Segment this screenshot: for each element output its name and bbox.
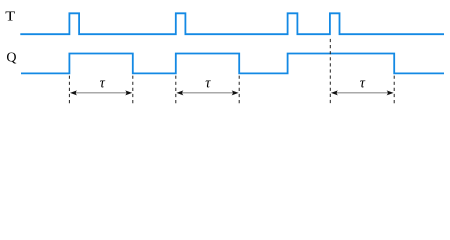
node dashed marker at Q1 rising edge <box>68 76 70 104</box>
node dashed marker at retrigger edge (T pulse 4) <box>329 36 331 104</box>
node dashed marker at Q1 falling edge <box>132 76 134 104</box>
node dashed marker at Q2 falling edge <box>238 76 240 104</box>
svg-text:τ: τ <box>205 76 211 92</box>
dimension arrow tau 1 <box>70 90 132 95</box>
svg-text:T: T <box>5 8 15 24</box>
svg-text:Q: Q <box>6 51 16 66</box>
dimension arrow tau 2 <box>176 90 238 95</box>
dimension arrow tau 3 <box>331 90 394 95</box>
wire Q waveform (monostable output pulses) <box>21 54 444 74</box>
wire T waveform (trigger pulses) <box>20 13 444 34</box>
svg-text:τ: τ <box>100 76 106 92</box>
svg-text:τ: τ <box>360 76 366 92</box>
node dashed marker at Q2 rising edge <box>175 76 177 104</box>
node dashed marker at Q3 falling edge <box>393 76 395 104</box>
